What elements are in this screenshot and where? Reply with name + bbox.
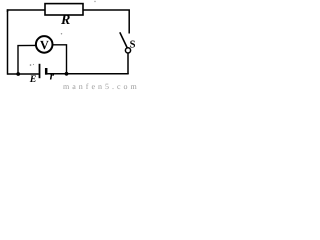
svg-text:E: E — [29, 74, 37, 85]
speck noise top edge — [94, 1, 95, 2]
switch S blade — [120, 32, 128, 48]
svg-text:R: R — [60, 13, 70, 28]
battery long plate — [39, 64, 41, 78]
wire top (resistor to top-right corner) — [83, 10, 129, 34]
wire bottom left segment — [8, 73, 39, 75]
voltmeter branch wire left vertical — [18, 45, 36, 74]
voltmeter U1 circle — [36, 36, 53, 53]
speck noise near voltmeter — [61, 33, 62, 34]
switch S pivot circle — [125, 48, 130, 53]
battery short plate — [45, 68, 48, 75]
svg-text:manfen5.com: manfen5.com — [63, 82, 140, 91]
svg-text:r: r — [50, 71, 55, 83]
wire left — [7, 9, 9, 74]
junction node right — [65, 72, 69, 76]
wire bottom right segment (short battery plate to bottom-right corner) — [47, 73, 128, 75]
wire top (left corner to resistor) — [8, 10, 46, 12]
resistor R1 box — [45, 4, 83, 15]
svg-text:V: V — [40, 38, 49, 52]
svg-text:S: S — [130, 40, 136, 51]
wire right lower — [127, 53, 129, 74]
speck noise above E — [30, 64, 32, 66]
junction node left — [16, 72, 20, 76]
voltmeter branch wire right vertical — [52, 45, 66, 74]
